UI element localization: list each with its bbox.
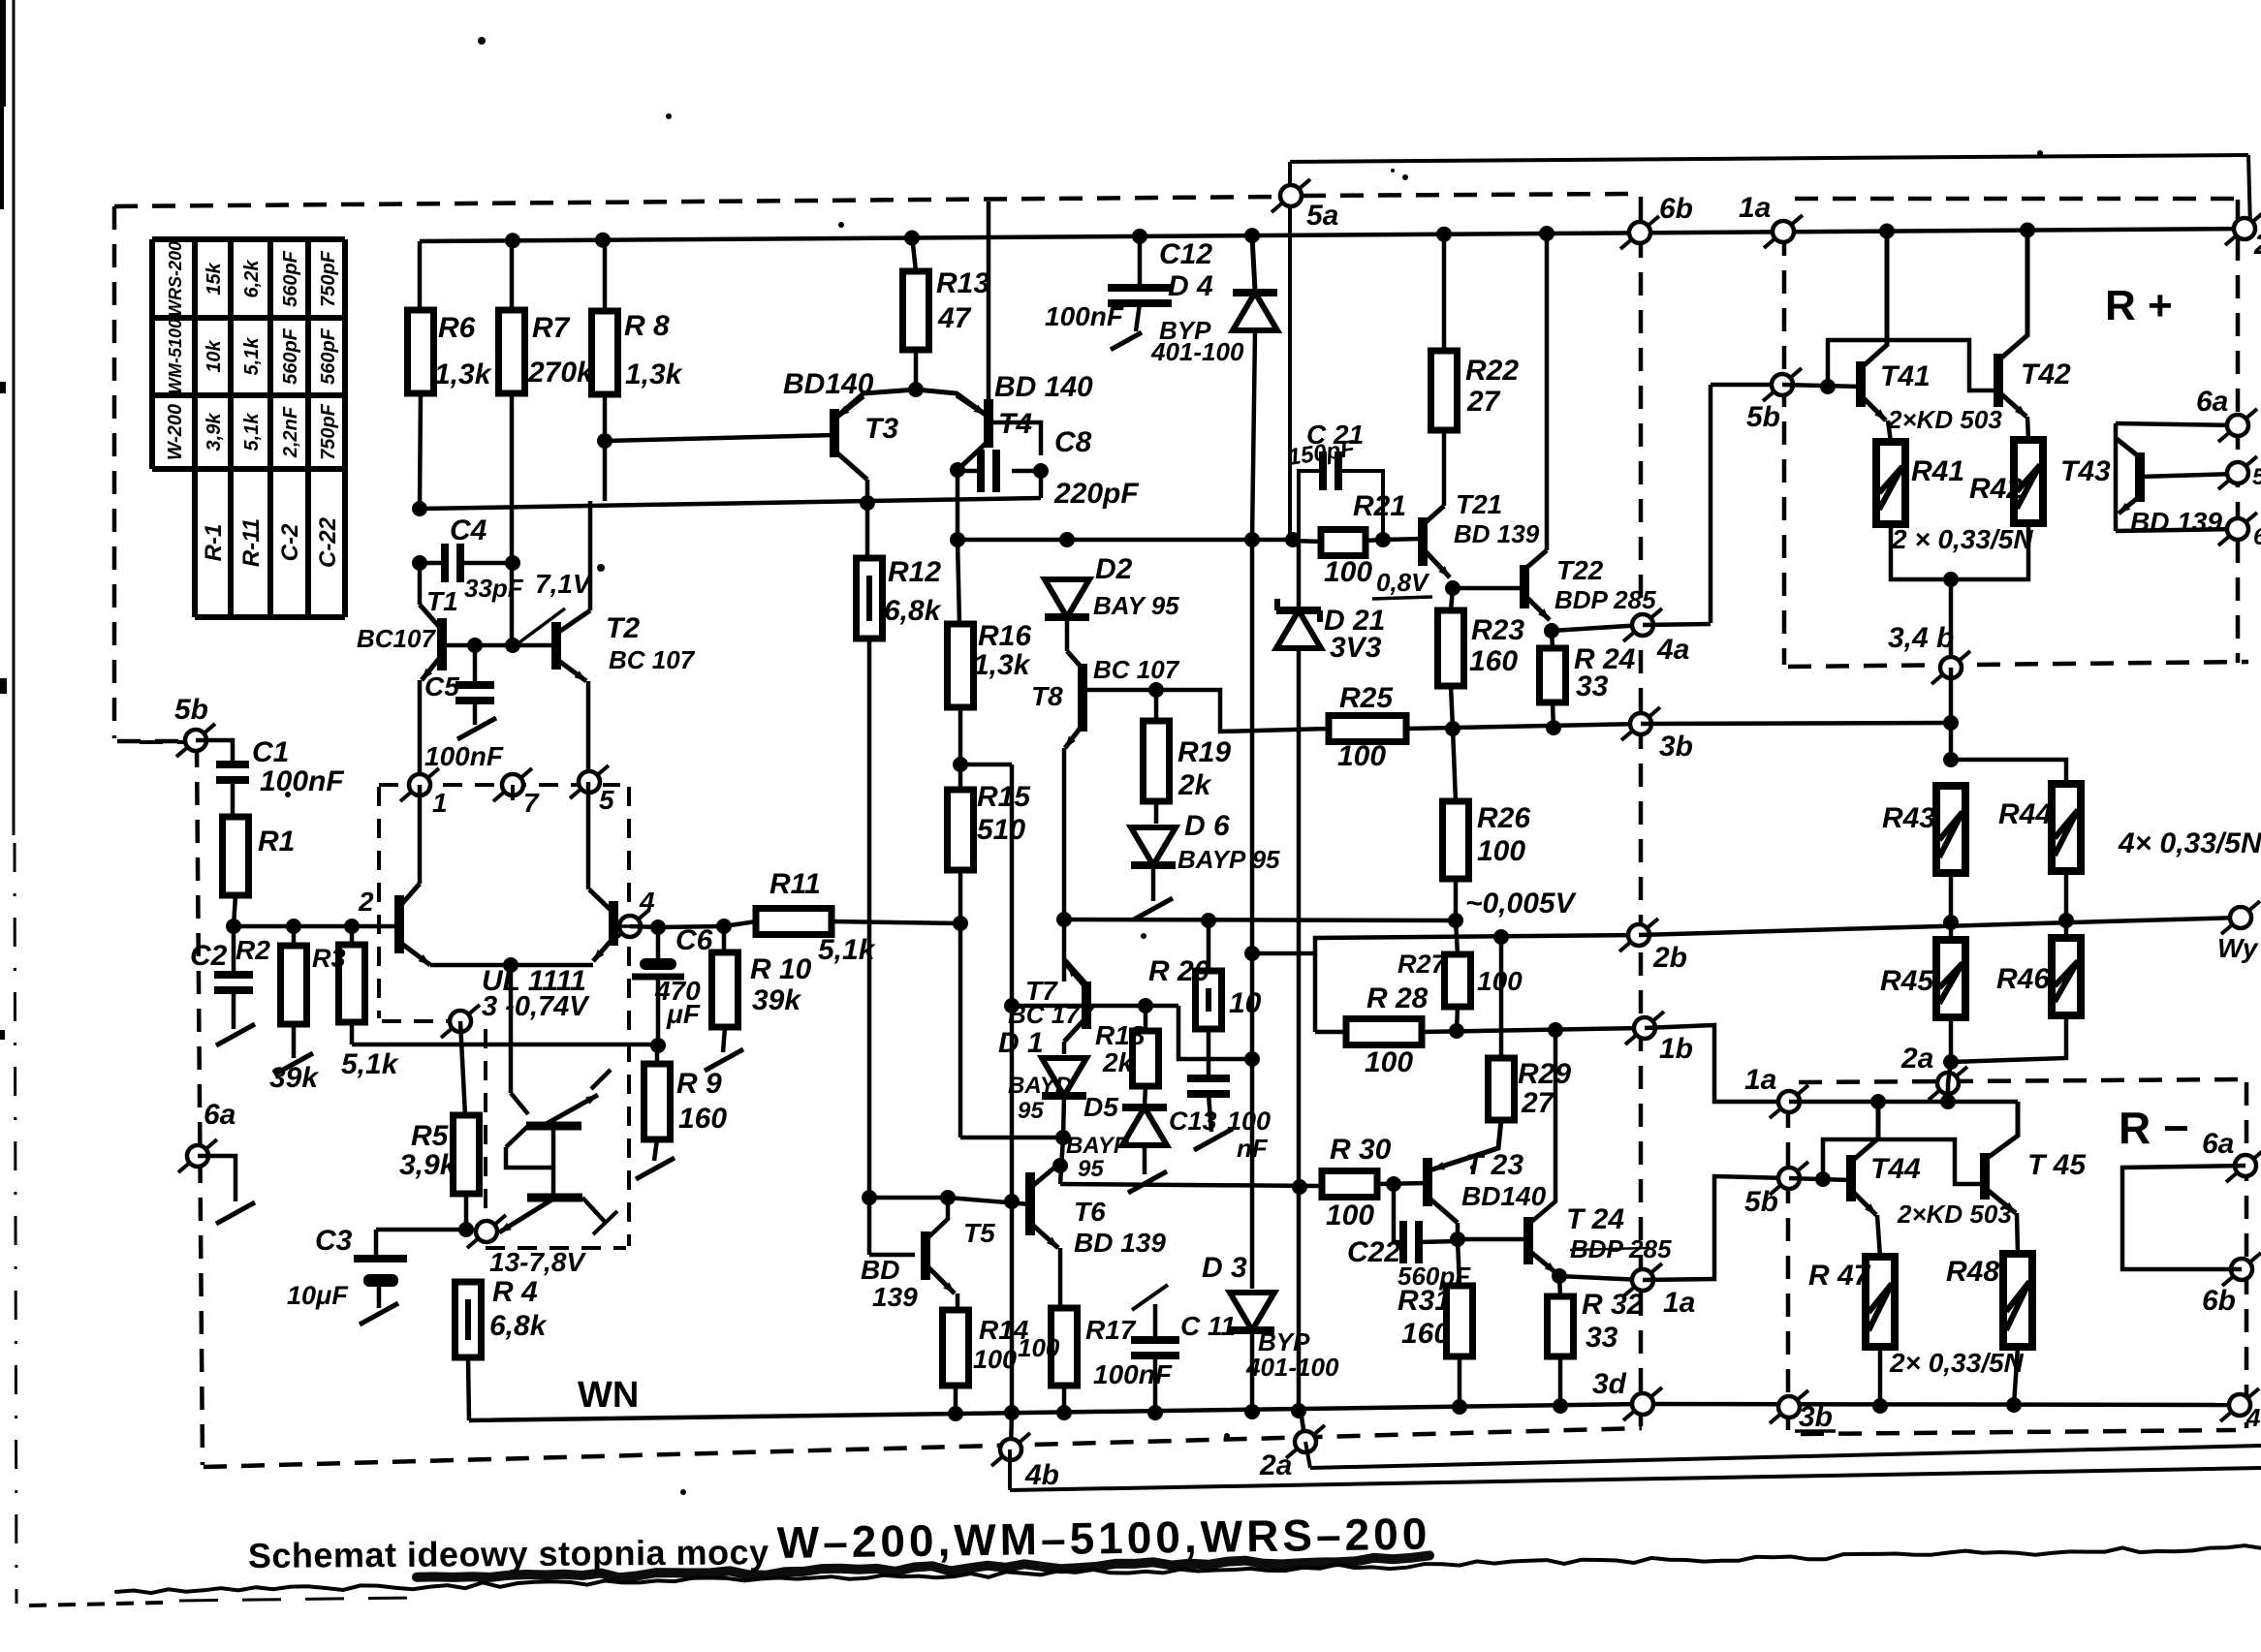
svg-text:6a: 6a [2202, 1128, 2234, 1160]
svg-text:6,8k: 6,8k [489, 1310, 548, 1342]
svg-text:R 28: R 28 [1366, 982, 1429, 1014]
svg-text:T2: T2 [606, 612, 640, 644]
svg-text:2a: 2a [1259, 1449, 1292, 1481]
svg-text:R46: R46 [1996, 963, 2050, 995]
svg-text:3 -0,74V: 3 -0,74V [482, 991, 590, 1022]
svg-text:1a: 1a [1744, 1064, 1776, 1096]
svg-text:D2: D2 [1095, 553, 1133, 585]
svg-text:0,8V: 0,8V [1376, 568, 1430, 597]
svg-text:BC 107: BC 107 [1093, 655, 1180, 684]
svg-text:R19: R19 [1178, 736, 1231, 768]
svg-text:T44: T44 [1870, 1153, 1921, 1185]
svg-text:2×KD 503: 2×KD 503 [1897, 1200, 2012, 1229]
svg-text:R16: R16 [978, 620, 1031, 652]
svg-text:R21: R21 [1353, 490, 1406, 522]
svg-text:560pF: 560pF [318, 327, 339, 385]
svg-text:BDP 285: BDP 285 [1554, 585, 1656, 614]
svg-text:R44: R44 [1998, 798, 2052, 830]
svg-text:2 × 0,33/5N: 2 × 0,33/5N [1891, 524, 2033, 554]
svg-text:100nF: 100nF [424, 741, 504, 771]
svg-text:100: 100 [1477, 835, 1525, 867]
svg-text:1,3k: 1,3k [434, 358, 492, 390]
svg-text:6a: 6a [204, 1099, 236, 1131]
svg-text:BD140: BD140 [1461, 1181, 1547, 1211]
svg-text:Wy: Wy [2217, 933, 2259, 963]
svg-text:R13: R13 [936, 267, 989, 299]
svg-text:T21: T21 [1456, 489, 1502, 519]
svg-text:3,9k: 3,9k [204, 413, 225, 452]
svg-text:R48: R48 [1946, 1256, 1999, 1288]
svg-text:R6: R6 [438, 312, 476, 344]
svg-text:750pF: 750pF [318, 403, 339, 460]
svg-text:R-11: R-11 [238, 518, 265, 567]
svg-text:2a: 2a [1900, 1043, 1933, 1075]
svg-text:R 47: R 47 [1808, 1260, 1871, 1292]
svg-text:5,1k: 5,1k [241, 337, 263, 376]
svg-text:100: 100 [1365, 1046, 1413, 1078]
svg-text:T5: T5 [963, 1218, 995, 1248]
svg-text:W-200: W-200 [165, 404, 186, 460]
svg-text:6,2k: 6,2k [241, 260, 263, 298]
svg-text:100: 100 [1337, 740, 1386, 772]
svg-text:6b: 6b [1659, 193, 1693, 225]
svg-text:R5: R5 [411, 1120, 450, 1152]
svg-text:R23: R23 [1471, 614, 1524, 646]
svg-text:BC 107: BC 107 [609, 645, 696, 674]
svg-text:3d: 3d [1592, 1368, 1627, 1400]
svg-text:R29: R29 [1518, 1058, 1571, 1090]
svg-text:3,4 b: 3,4 b [1888, 622, 1954, 654]
svg-text:R22: R22 [1465, 355, 1519, 387]
svg-text:401-100: 401-100 [1245, 1353, 1339, 1382]
svg-text:R7: R7 [532, 312, 571, 344]
svg-text:BC107: BC107 [357, 624, 436, 653]
svg-text:2× 0,33/5N: 2× 0,33/5N [1889, 1348, 2025, 1378]
svg-text:33: 33 [1586, 1322, 1618, 1354]
svg-text:R2: R2 [236, 935, 270, 965]
svg-text:T41: T41 [1880, 360, 1931, 392]
svg-text:2×KD 503: 2×KD 503 [1887, 405, 2002, 434]
svg-text:100: 100 [1326, 1200, 1374, 1231]
svg-text:C6: C6 [675, 924, 713, 956]
svg-text:3b: 3b [1659, 731, 1693, 763]
svg-text:R26: R26 [1477, 802, 1530, 834]
svg-text:T3: T3 [864, 413, 898, 445]
svg-text:100: 100 [1227, 1107, 1271, 1136]
svg-text:39k: 39k [752, 984, 801, 1016]
svg-text:BAYD: BAYD [1008, 1073, 1072, 1099]
svg-text:R42: R42 [1969, 473, 2023, 505]
svg-text:C2: C2 [190, 940, 228, 972]
svg-text:27: 27 [1466, 386, 1501, 418]
svg-text:750pF: 750pF [318, 250, 339, 307]
svg-text:3V3: 3V3 [1330, 632, 1382, 664]
svg-text:BD 139: BD 139 [1074, 1228, 1166, 1258]
svg-text:T42: T42 [2021, 358, 2071, 390]
svg-text:R27: R27 [1397, 950, 1448, 979]
svg-text:μF: μF [666, 999, 701, 1029]
svg-text:R 20: R 20 [1148, 955, 1210, 987]
svg-text:R17: R17 [1085, 1315, 1137, 1345]
svg-text:1: 1 [432, 788, 448, 818]
svg-text:R25: R25 [1339, 682, 1394, 714]
svg-text:5b: 5b [1746, 401, 1780, 433]
svg-text:D 4: D 4 [1168, 270, 1213, 302]
svg-text:95: 95 [1018, 1098, 1044, 1124]
svg-text:2: 2 [2253, 229, 2261, 261]
svg-text:100: 100 [1324, 556, 1372, 588]
svg-text:510: 510 [977, 814, 1025, 846]
svg-text:5,1k: 5,1k [818, 934, 876, 966]
svg-text:R11: R11 [769, 868, 821, 900]
svg-text:WRS-200: WRS-200 [166, 241, 185, 317]
svg-text:160: 160 [1469, 645, 1518, 677]
svg-text:R43: R43 [1882, 802, 1935, 834]
svg-text:T 24: T 24 [1566, 1203, 1624, 1235]
svg-text:139: 139 [872, 1282, 918, 1312]
svg-text:33: 33 [1576, 670, 1609, 702]
svg-text:160: 160 [678, 1103, 727, 1135]
svg-text:1a: 1a [1663, 1287, 1695, 1319]
svg-text:WM-5100: WM-5100 [166, 319, 185, 394]
svg-text:T43: T43 [2060, 455, 2111, 487]
svg-text:4b: 4b [2245, 1403, 2261, 1432]
svg-text:R 9: R 9 [676, 1068, 722, 1100]
svg-text:4× 0,33/5N: 4× 0,33/5N [2118, 827, 2261, 859]
svg-text:2: 2 [358, 887, 374, 917]
svg-text:4a: 4a [1656, 634, 1689, 666]
svg-text:T22: T22 [1556, 555, 1604, 585]
svg-text:WN: WN [578, 1375, 639, 1416]
svg-text:100nF: 100nF [260, 765, 344, 797]
svg-text:5b: 5b [1744, 1186, 1778, 1218]
svg-text:4b: 4b [1024, 1459, 1059, 1491]
svg-text:100: 100 [1018, 1333, 1060, 1362]
svg-text:T 45: T 45 [2027, 1149, 2087, 1181]
svg-text:R-1: R-1 [201, 524, 227, 562]
svg-text:2k: 2k [1102, 1047, 1135, 1077]
svg-text:D 6: D 6 [1184, 810, 1230, 842]
svg-text:401-100: 401-100 [1150, 337, 1244, 366]
svg-text:5: 5 [599, 785, 614, 815]
svg-text:R15: R15 [977, 781, 1031, 813]
svg-text:10μF: 10μF [287, 1281, 349, 1310]
svg-text:R3: R3 [312, 944, 346, 973]
svg-text:BD 139: BD 139 [1454, 519, 1540, 548]
svg-text:T1: T1 [426, 586, 458, 616]
svg-text:C13: C13 [1169, 1107, 1217, 1136]
svg-text:2b: 2b [1652, 942, 1687, 974]
svg-text:5b: 5b [174, 694, 208, 726]
svg-text:R 4: R 4 [492, 1276, 538, 1308]
svg-text:~0,005V: ~0,005V [1465, 888, 1578, 920]
svg-text:560pF: 560pF [280, 327, 301, 385]
svg-text:95: 95 [1078, 1156, 1104, 1182]
svg-text:1a: 1a [1739, 192, 1771, 224]
svg-text:BD 140: BD 140 [994, 371, 1093, 403]
svg-text:C1: C1 [252, 736, 289, 768]
svg-text:10: 10 [1229, 987, 1262, 1019]
svg-text:33pF: 33pF [464, 574, 524, 603]
svg-text:R 8: R 8 [624, 310, 670, 342]
svg-text:BAYP: BAYP [1066, 1133, 1130, 1159]
svg-text:C22: C22 [1347, 1236, 1400, 1268]
svg-text:C5: C5 [424, 671, 459, 701]
svg-text:220pF: 220pF [1053, 478, 1139, 510]
svg-text:5: 5 [2252, 464, 2261, 490]
svg-text:5,1k: 5,1k [341, 1048, 399, 1080]
svg-text:6a: 6a [2196, 386, 2228, 418]
svg-text:R 30: R 30 [1330, 1134, 1392, 1166]
svg-text:2k: 2k [1178, 769, 1212, 801]
svg-text:C-2: C-2 [277, 523, 303, 561]
svg-text:T8: T8 [1031, 681, 1063, 711]
svg-text:4: 4 [639, 887, 655, 917]
svg-text:13-7,8V: 13-7,8V [489, 1247, 586, 1277]
svg-text:1,3k: 1,3k [973, 649, 1031, 681]
svg-text:C-22: C-22 [315, 516, 341, 568]
svg-text:7: 7 [523, 788, 540, 818]
svg-text:BD 139: BD 139 [2130, 507, 2222, 537]
svg-text:1b: 1b [1659, 1033, 1693, 1065]
svg-text:6,8k: 6,8k [884, 595, 942, 627]
svg-text:5,1k: 5,1k [241, 413, 263, 452]
svg-text:R1: R1 [258, 826, 295, 857]
svg-text:BD: BD [861, 1255, 899, 1285]
svg-text:3,9k: 3,9k [399, 1149, 457, 1181]
svg-text:D5: D5 [1083, 1092, 1118, 1122]
svg-text:BAY 95: BAY 95 [1093, 591, 1179, 620]
svg-text:2,2nF: 2,2nF [280, 406, 301, 458]
svg-text:3b: 3b [1799, 1401, 1833, 1433]
svg-text:R +: R + [2105, 282, 2173, 329]
svg-text:C4: C4 [450, 514, 487, 546]
svg-text:270k: 270k [527, 357, 594, 389]
svg-text:D 3: D 3 [1202, 1252, 1247, 1284]
svg-text:100nF: 100nF [1045, 301, 1124, 331]
svg-text:100nF: 100nF [1093, 1359, 1173, 1389]
svg-text:7,1V: 7,1V [535, 569, 593, 599]
svg-text:R45: R45 [1880, 965, 1934, 997]
svg-text:1,3k: 1,3k [625, 358, 683, 390]
svg-text:47: 47 [937, 302, 972, 334]
svg-text:R −: R − [2119, 1103, 2189, 1153]
svg-text:R18: R18 [1095, 1020, 1146, 1050]
svg-text:C 11: C 11 [1180, 1311, 1236, 1341]
svg-text:C12: C12 [1159, 238, 1212, 270]
svg-text:15k: 15k [204, 262, 225, 295]
svg-text:BAYP 95: BAYP 95 [1178, 845, 1280, 874]
svg-text:R12: R12 [888, 556, 941, 588]
svg-text:C8: C8 [1054, 426, 1092, 458]
svg-text:160: 160 [1401, 1318, 1450, 1350]
svg-text:10k: 10k [204, 339, 225, 372]
svg-text:C3: C3 [315, 1225, 353, 1257]
svg-text:R 32: R 32 [1582, 1289, 1644, 1321]
svg-text:27: 27 [1521, 1087, 1555, 1119]
svg-text:R31: R31 [1397, 1285, 1451, 1317]
svg-text:6: 6 [2253, 524, 2261, 550]
svg-text:D 1: D 1 [998, 1027, 1044, 1059]
svg-text:R41: R41 [1911, 455, 1964, 487]
svg-text:560pF: 560pF [280, 250, 301, 307]
svg-text:T6: T6 [1074, 1197, 1106, 1227]
svg-text:5a: 5a [1306, 200, 1338, 232]
svg-text:R 10: R 10 [750, 953, 812, 985]
svg-text:39k: 39k [269, 1062, 319, 1094]
svg-text:6b: 6b [2202, 1285, 2236, 1317]
